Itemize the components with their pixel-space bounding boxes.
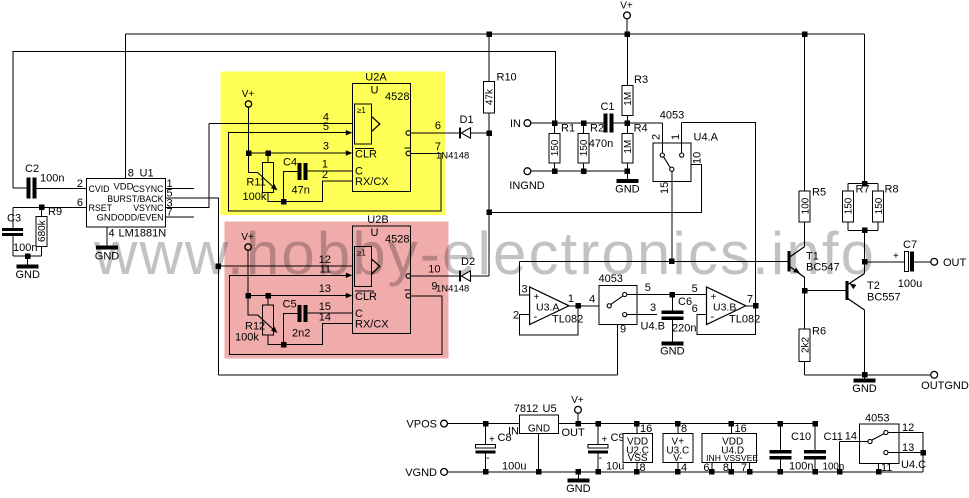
svg-text:GND: GND [528, 424, 550, 435]
svg-text:RSET: RSET [89, 203, 113, 213]
connector IN [524, 120, 531, 127]
wire D1/D2 common vertical [488, 133, 490, 276]
resistor R2 150 [578, 134, 589, 164]
svg-text:CLR: CLR [355, 291, 377, 303]
node pin12/13 junction [920, 450, 926, 456]
svg-text:C10: C10 [791, 431, 811, 443]
svg-text:VGND: VGND [405, 467, 437, 479]
diode D1 1N4148 [459, 128, 461, 139]
wire U2B pin10 to D2 [411, 275, 460, 277]
svg-text:VPOS: VPOS [406, 419, 437, 431]
diode D2 1N4148 [459, 271, 461, 282]
svg-text:LM1881N: LM1881N [119, 228, 167, 240]
capacitor C2 100n [27, 177, 31, 198]
wire U4.B pin5 output [627, 294, 707, 296]
wire U2B CLR pin13 [248, 295, 348, 297]
svg-text:C7: C7 [903, 239, 917, 251]
node tap to U4A pin10 [486, 210, 492, 216]
svg-text:10: 10 [428, 264, 440, 276]
svg-text:U5: U5 [543, 403, 557, 415]
svg-text:U: U [371, 85, 379, 97]
svg-text:R10: R10 [497, 72, 517, 84]
svg-text:150: 150 [874, 197, 885, 214]
svg-text:47n: 47n [292, 185, 310, 197]
wire R7/R8 to T2 emitter node [864, 230, 866, 261]
trimmer R12 100k [267, 296, 269, 306]
node ground junction [25, 253, 31, 259]
wire U2A pin6 to D1 [411, 132, 460, 134]
U4.C throw pin12 [884, 430, 888, 434]
wire C1 to R3/R4 node [613, 122, 662, 124]
wire U3.B output to rail [746, 305, 756, 307]
wire U3.A pin2 feedback [519, 306, 578, 335]
connector VPOS [441, 420, 448, 427]
capacitor C5 2n2 [284, 314, 298, 345]
IC U5 7812 regulator [520, 415, 559, 434]
svg-text:RX/CX: RX/CX [355, 319, 389, 331]
resistor R3 1M [626, 34, 628, 86]
svg-text:220n: 220n [672, 323, 696, 335]
node R1 top junction [552, 120, 558, 126]
node C6 junction [670, 292, 676, 298]
op-amp U3.A TL082 [530, 287, 569, 325]
svg-text:R11: R11 [246, 177, 265, 189]
wire CVID pin2 to C2 [36, 187, 86, 189]
resistor R8 150 [877, 184, 879, 191]
resistor R7 150 [847, 184, 849, 191]
svg-text:CLR: CLR [355, 149, 377, 161]
node R5 rail junction [802, 31, 808, 37]
IC U3.C supply pins [663, 433, 693, 462]
svg-text:IN: IN [508, 426, 519, 438]
wire VPOS to U5 [448, 423, 520, 425]
svg-text:15: 15 [659, 182, 671, 194]
IC U2.C supply pins [623, 433, 653, 462]
ground T2 [864, 375, 866, 379]
svg-text:C3: C3 [7, 213, 21, 225]
IC U1 LM1881N [87, 179, 166, 228]
U4.B throw pin5 [623, 292, 627, 296]
wire U5 OUT [559, 423, 599, 425]
node T1 emitter junction [802, 288, 808, 294]
node C8 top junction [483, 421, 489, 427]
wire U2B pin11 input with feedback from pin9 [230, 275, 443, 354]
svg-text:5: 5 [645, 282, 651, 294]
svg-text:GND: GND [660, 346, 685, 358]
capacitor C10 100n [779, 424, 781, 450]
svg-text:4528: 4528 [385, 234, 409, 246]
svg-text:U4.B: U4.B [641, 321, 665, 333]
wire INGND node [531, 170, 628, 172]
svg-text:4053: 4053 [660, 110, 684, 122]
U2A inner logic box [355, 104, 372, 144]
svg-text:1N4148: 1N4148 [436, 151, 469, 162]
node RSET junction [39, 205, 45, 211]
node U3.A output junction [575, 303, 581, 309]
svg-text:4053: 4053 [598, 273, 622, 285]
resistor R10 47k [488, 34, 490, 82]
connector VGND [441, 469, 448, 476]
node V+ CLR13 junction [245, 293, 251, 299]
svg-text:U3.A: U3.A [536, 302, 559, 314]
svg-text:OUT: OUT [943, 257, 967, 269]
svg-text:680k: 680k [37, 219, 48, 242]
svg-text:V+: V+ [241, 232, 254, 243]
svg-text:6: 6 [692, 303, 698, 315]
svg-text:100u: 100u [898, 278, 922, 290]
node C9 top junction [595, 421, 601, 427]
node D1/R10 junction [486, 130, 492, 136]
svg-text:100: 100 [800, 197, 811, 214]
svg-text:1M: 1M [623, 140, 634, 154]
svg-text:U1: U1 [140, 168, 154, 180]
svg-text:150: 150 [550, 139, 561, 156]
svg-text:7812: 7812 [514, 403, 538, 415]
svg-text:V+: V+ [242, 89, 255, 100]
svg-text:U4.A: U4.A [694, 132, 719, 144]
node V+ rail R10 junction [486, 31, 492, 37]
svg-text:C2: C2 [25, 163, 39, 175]
wire U1 VDD to V+ rail [124, 34, 126, 179]
svg-text:14: 14 [319, 312, 331, 324]
resistor R5 100 [804, 34, 806, 191]
capacitor C4 47n [284, 172, 298, 202]
svg-text:100k: 100k [235, 332, 259, 344]
svg-text:+: + [893, 251, 899, 262]
ground C6 [661, 342, 683, 346]
svg-text:100n: 100n [13, 242, 37, 254]
wire input rail top [13, 52, 556, 188]
ground INGND [626, 171, 628, 179]
wire BURST/BACK long bottom wire to U4.B pin9 [218, 374, 617, 376]
wire U4.B pin9 down [617, 325, 619, 375]
svg-text:≥1: ≥1 [357, 106, 366, 115]
node R12 top junction [265, 293, 271, 299]
resistor R1 150 [549, 134, 560, 164]
IC U4.C 4053 switch [859, 424, 899, 463]
svg-text:R12: R12 [245, 320, 265, 332]
wire U3.C pin8 [677, 424, 679, 434]
svg-text:U4.C: U4.C [901, 459, 926, 471]
connector OUT [931, 258, 938, 265]
IC U2B 4528 [352, 226, 410, 334]
svg-text:-: - [486, 452, 490, 464]
wire C4 to U2A pin1 [307, 170, 352, 172]
svg-text:ODD/EVEN: ODD/EVEN [118, 213, 164, 223]
svg-text:100n: 100n [789, 460, 813, 472]
wire signal to T1 base [519, 260, 789, 262]
svg-text:R3: R3 [634, 74, 648, 86]
svg-text:C4: C4 [283, 157, 297, 169]
svg-text:+: + [489, 435, 495, 446]
svg-text:7: 7 [747, 294, 753, 306]
wire U2.C pin16 [636, 424, 638, 434]
node V+ CLR junction [246, 150, 252, 156]
svg-text:CSYNC: CSYNC [133, 184, 164, 194]
ground below C3/R9 [27, 256, 29, 265]
wire OUTGND rail [805, 374, 931, 376]
svg-text:-: - [599, 452, 603, 464]
capacitor C3 100n [12, 207, 14, 228]
svg-text:6: 6 [435, 120, 441, 132]
svg-text:47k: 47k [485, 88, 496, 105]
svg-text:3: 3 [323, 141, 329, 153]
svg-text:1: 1 [670, 134, 682, 140]
svg-text:www.hobby-electronics.info: www.hobby-electronics.info [93, 220, 874, 287]
yellow highlight region U2A monostable [221, 71, 446, 215]
ground U1 pin4 [96, 246, 118, 250]
wire V+ rail to R7/R8 [864, 34, 866, 184]
node R7/R8 top junction [862, 181, 868, 187]
svg-text:4528: 4528 [385, 91, 409, 103]
node V+ rail junction [624, 31, 630, 37]
wire C2 left to input rail [13, 187, 27, 189]
wire U4.C pin14 [840, 441, 868, 443]
svg-text:3: 3 [650, 302, 656, 314]
wire C7 to OUT [914, 261, 931, 263]
power V+ terminal top [624, 12, 631, 19]
svg-text:U2A: U2A [365, 72, 387, 84]
U4.C throw pin13 [884, 450, 888, 454]
wire U2.C pin8 [636, 462, 638, 472]
svg-text:8: 8 [128, 168, 134, 180]
svg-text:OUT: OUT [562, 427, 586, 439]
svg-text:BC557: BC557 [867, 292, 901, 304]
svg-text:11: 11 [881, 462, 892, 474]
svg-text:GND: GND [615, 184, 640, 196]
node R1 bottom junction [552, 168, 558, 174]
wire U4.A pin15 common down to T1 base wire [671, 171, 673, 261]
wire U4.C pin12 [888, 433, 923, 472]
svg-text:5: 5 [323, 121, 329, 133]
wire U2B pin14 RX/CX [284, 324, 353, 345]
transistor T1 BC547 [788, 251, 791, 272]
node T2 collector junction [862, 372, 868, 378]
svg-text:D2: D2 [461, 256, 475, 268]
svg-text:INGND: INGND [509, 180, 545, 192]
svg-text:11: 11 [320, 264, 331, 276]
node GND symbol junction [576, 469, 582, 475]
node U3.B output junction [753, 303, 759, 309]
ground bottom rail [577, 472, 579, 479]
capacitor C6 220n [671, 295, 673, 311]
wire CSYNC pin1 stub [165, 187, 194, 189]
wire U4.C pin13 [888, 452, 923, 454]
wire VSYNC pin3 up to U2A pin4 [165, 124, 209, 208]
svg-text:V+: V+ [571, 395, 584, 406]
node U5 GND junction [536, 469, 542, 475]
wire U3.C pin4 [677, 462, 679, 472]
node R7/R8 bottom junction [848, 229, 878, 231]
IC U4.A 4053 switch [653, 143, 691, 181]
svg-text:R2: R2 [590, 123, 604, 135]
svg-text:10: 10 [692, 152, 704, 164]
resistor R9 680k [41, 207, 43, 216]
svg-text:GND: GND [15, 269, 40, 281]
wire U2A pin2 RX/CX [284, 181, 353, 202]
capacitor C9 10u [597, 424, 599, 445]
wire C3/R9 bottom [13, 255, 42, 257]
svg-text:U: U [371, 227, 379, 239]
svg-text:R7: R7 [856, 184, 870, 196]
pink highlight region U2B monostable [224, 222, 448, 359]
wire U3.A pin3 input [519, 261, 529, 295]
capacitor C11 100n [814, 424, 816, 450]
svg-text:RX/CX: RX/CX [355, 176, 389, 188]
svg-text:1: 1 [568, 293, 574, 305]
svg-text:4053: 4053 [865, 413, 889, 425]
wire BURST/BACK pin5 down to U2B [165, 198, 218, 375]
U2B inner logic box [355, 247, 372, 287]
node R2 bottom junction [581, 168, 587, 174]
svg-text:GND: GND [95, 251, 120, 263]
node BURST/BACK junction [216, 263, 222, 269]
op-amp U3.B TL082 [707, 287, 746, 325]
wire U5 GND pin [538, 434, 540, 472]
capacitor C1 470n [603, 114, 607, 133]
node C8 bottom junction [483, 469, 489, 475]
capacitor C8 100u [485, 424, 487, 445]
wire U4.D pin8 [730, 462, 732, 472]
svg-text:4: 4 [589, 293, 595, 305]
svg-text:BC547: BC547 [806, 262, 840, 274]
node U4.A common junction [669, 259, 675, 265]
svg-text:1M: 1M [623, 92, 634, 106]
svg-text:100k: 100k [243, 191, 267, 203]
svg-text:5: 5 [692, 283, 698, 295]
wire IN node [531, 122, 604, 124]
svg-text:R8: R8 [885, 184, 899, 196]
svg-text:2k2: 2k2 [800, 336, 811, 353]
svg-text:GND: GND [566, 483, 591, 495]
node T2 emitter junction [862, 259, 868, 265]
wire RSET pin6 [13, 206, 87, 208]
resistor R4 1M [622, 134, 633, 164]
svg-text:D1: D1 [460, 114, 474, 126]
svg-text:C5: C5 [283, 299, 297, 311]
wire bottom V+ rail [598, 423, 815, 425]
svg-text:IN: IN [510, 118, 521, 130]
svg-text:R1: R1 [561, 123, 575, 135]
U2B pin9 inverted output bubble [406, 294, 411, 299]
connector INGND [524, 168, 531, 175]
svg-text:470n: 470n [589, 138, 613, 150]
svg-text:≥1: ≥1 [357, 249, 366, 258]
capacitor C7 100u [865, 261, 905, 263]
node C9 bottom junction [595, 469, 601, 475]
power V+ terminal yellow [245, 101, 251, 107]
svg-text:VDD: VDD [113, 182, 133, 193]
svg-text:GND: GND [852, 383, 877, 395]
wire tap to U4.A pin10 [489, 164, 701, 212]
svg-text:R6: R6 [812, 326, 826, 338]
svg-text:13: 13 [319, 283, 331, 295]
wire U3.B pin6 feedback [697, 306, 756, 335]
node R11/C4 junction [281, 199, 287, 205]
svg-text:16: 16 [735, 423, 747, 435]
svg-text:2: 2 [322, 169, 328, 181]
U2A pin6 output bubble [406, 131, 411, 136]
svg-text:T2: T2 [867, 280, 880, 292]
power V+ terminal bottom [575, 406, 582, 413]
node R12/C5 junction [281, 342, 287, 348]
svg-text:10u: 10u [606, 461, 624, 473]
svg-text:CVID: CVID [89, 184, 110, 194]
IC U4.B 4053 switch [599, 286, 637, 325]
wire U2A pin5 input with feedback from pin7 [229, 133, 442, 211]
wire U4.D pin7 [749, 462, 751, 472]
wire U4.C pin14 to VGND [839, 442, 841, 472]
svg-text:1N4148: 1N4148 [436, 284, 469, 295]
IC U4.D supply pins [702, 433, 757, 462]
connector OUTGND [931, 371, 938, 378]
svg-text:12: 12 [902, 422, 914, 434]
svg-text:8: 8 [681, 423, 687, 435]
U4.A switch common [670, 167, 674, 171]
U4.B throw pin3 stub [623, 313, 627, 317]
svg-text:150: 150 [844, 197, 855, 214]
U4.B switch common [607, 304, 611, 308]
svg-text:OUTGND: OUTGND [921, 380, 969, 392]
svg-text:2: 2 [651, 134, 663, 140]
resistor R6 2k2 [804, 291, 806, 330]
wire C5 to U2B pin15 [307, 312, 352, 314]
svg-text:13: 13 [902, 442, 914, 454]
node R4 bottom junction [625, 168, 631, 174]
svg-text:U3.B: U3.B [713, 302, 736, 314]
wire U2B pin12 input [218, 265, 352, 267]
svg-text:+: + [602, 435, 608, 446]
svg-text:V+: V+ [620, 1, 633, 12]
svg-text:U2B: U2B [367, 214, 388, 226]
wire U4.A pin2 from C1 node [661, 123, 663, 153]
wire U4.A pin1 from U3.B output [681, 122, 683, 153]
transistor T2 BC557 [805, 290, 847, 292]
wire V+ top rail [125, 33, 864, 35]
wire VGND rail [448, 471, 924, 473]
wire U4.D pin16 [730, 424, 732, 434]
power V+ terminal pink [245, 244, 251, 250]
svg-text:14: 14 [845, 431, 857, 443]
svg-text:2: 2 [513, 310, 519, 322]
svg-text:4: 4 [109, 228, 115, 240]
U2A pin7 inverted output bubble [406, 151, 411, 156]
node R11 top junction [265, 150, 271, 156]
svg-text:R9: R9 [48, 206, 62, 218]
IC U2A 4528 [352, 84, 410, 192]
svg-text:C6: C6 [678, 296, 692, 308]
wire U1 GND pin4 to ground [106, 227, 108, 246]
node R3/R4 junction [625, 120, 631, 126]
svg-text:GND: GND [97, 213, 118, 224]
wire U4.C pin11 [878, 463, 880, 472]
svg-text:16: 16 [640, 423, 652, 435]
svg-text:C1: C1 [600, 101, 614, 113]
svg-text:100u: 100u [502, 461, 526, 473]
wire U2A CLR pin3 [249, 152, 349, 154]
U2B pin10 output bubble [406, 274, 411, 279]
svg-text:2n2: 2n2 [292, 328, 310, 340]
wire U4.D pin6 [711, 462, 713, 472]
node V+ junction [576, 421, 582, 427]
svg-text:R4: R4 [634, 123, 648, 135]
trimmer R11 100k [267, 153, 269, 162]
svg-text:3: 3 [522, 284, 528, 296]
svg-text:VSYNC: VSYNC [133, 203, 164, 213]
wire U3.A output to U4.B [569, 305, 607, 307]
svg-text:R5: R5 [812, 187, 826, 199]
wire U2A pin4 input [209, 123, 352, 125]
